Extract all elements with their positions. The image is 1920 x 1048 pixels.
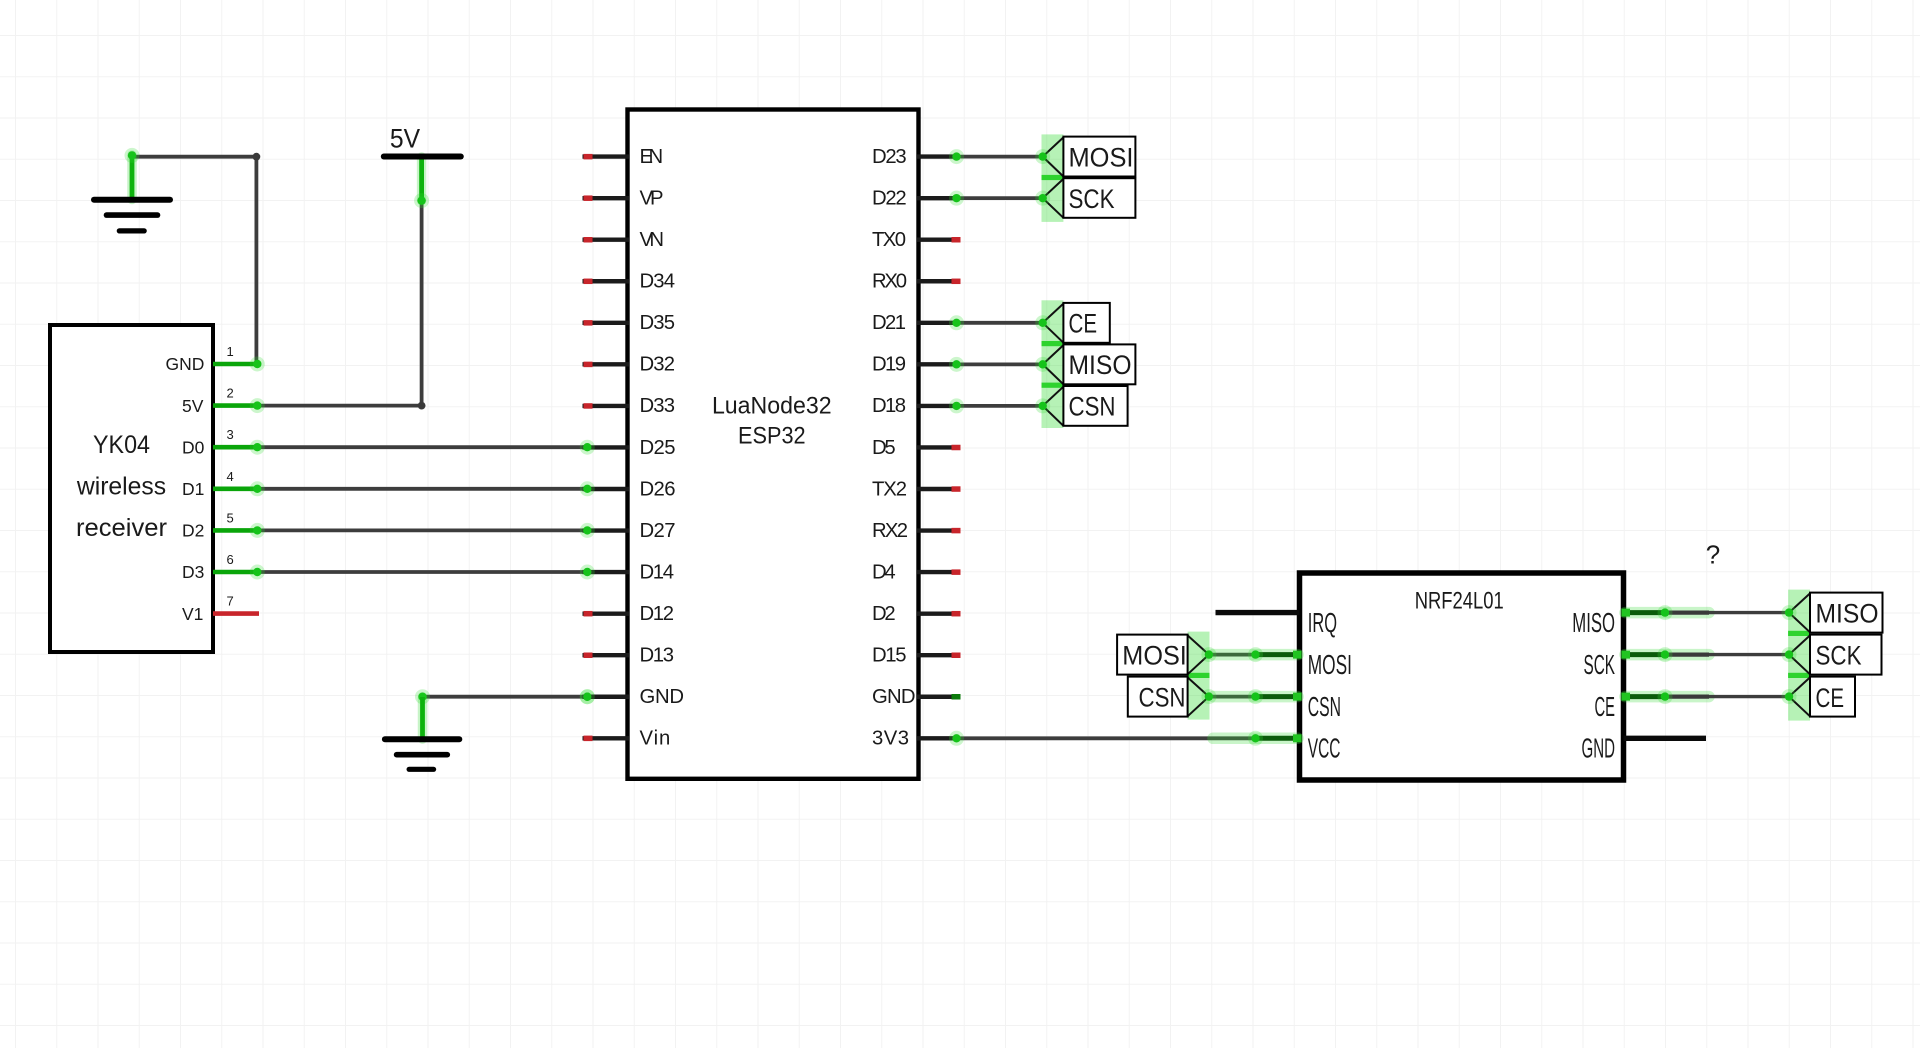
- svg-text:D33: D33: [640, 395, 676, 417]
- svg-text:MOSI: MOSI: [1308, 649, 1352, 680]
- NRF pin IRQ (black stub, unconnected): [1216, 610, 1300, 615]
- wire label CSN to NRF CSN: [1209, 695, 1256, 699]
- node D19 pin end: [949, 357, 964, 372]
- wire D22 to label SCK: [957, 196, 1043, 200]
- ESP32 left green connected dots: [580, 440, 595, 455]
- YK04 pin 4 D1: [213, 486, 261, 491]
- svg-text:D5: D5: [872, 437, 896, 459]
- svg-text:1: 1: [227, 344, 234, 359]
- svg-text:D13: D13: [640, 645, 675, 667]
- node GND wire at ground G2: [415, 689, 430, 704]
- svg-text:CE: CE: [1069, 309, 1098, 339]
- ESP32 right GND dark green tip: [952, 694, 961, 700]
- NRF pin VCC: [1213, 733, 1298, 745]
- svg-text:7: 7: [227, 594, 234, 609]
- svg-text:5V: 5V: [390, 123, 420, 153]
- svg-text:2: 2: [227, 386, 234, 401]
- svg-text:LuaNode32: LuaNode32: [712, 393, 832, 420]
- svg-text:VCC: VCC: [1308, 733, 1341, 764]
- svg-text:EN: EN: [640, 146, 664, 168]
- svg-text:D3: D3: [182, 562, 204, 582]
- svg-text:D4: D4: [872, 561, 896, 583]
- wire D18 to label CSN: [957, 404, 1043, 408]
- svg-text:D22: D22: [872, 187, 907, 209]
- flag SCK (right): [1789, 635, 1810, 674]
- svg-text:YK04: YK04: [93, 431, 150, 459]
- wire YK04 D3 to ESP32 D14: [258, 570, 588, 574]
- svg-text:RX2: RX2: [872, 520, 908, 542]
- node junction GND net: [253, 153, 261, 161]
- svg-text:VN: VN: [640, 229, 665, 251]
- svg-text:MISO: MISO: [1572, 607, 1615, 638]
- svg-text:Vin: Vin: [640, 728, 671, 750]
- svg-text:GND: GND: [1582, 733, 1616, 764]
- svg-text:D2: D2: [872, 603, 896, 625]
- NRF pin CSN: [1213, 691, 1298, 703]
- svg-text:5: 5: [227, 510, 234, 525]
- svg-text:MOSI: MOSI: [1122, 640, 1187, 670]
- svg-text:MOSI: MOSI: [1069, 142, 1134, 172]
- ESP32 left pins: [583, 157, 630, 739]
- svg-text:4: 4: [227, 469, 234, 484]
- svg-text:D34: D34: [640, 271, 676, 293]
- flag MISO (right): [1789, 593, 1810, 632]
- net label group MOSI/SCK (at ESP32 D23/D22): [1042, 134, 1064, 222]
- svg-text:RX0: RX0: [872, 271, 907, 293]
- ESP32 right pin labels: [872, 146, 916, 750]
- wire YK04 5V pin to junction: [258, 404, 422, 408]
- NRF pin SCK (right): [1625, 649, 1709, 661]
- svg-text:receiver: receiver: [76, 514, 167, 542]
- svg-text:D26: D26: [640, 478, 676, 500]
- svg-text:CE: CE: [1816, 683, 1845, 713]
- node 3V3 pin end: [949, 731, 964, 746]
- node NRF VCC pin end: [1248, 731, 1263, 746]
- svg-text:CSN: CSN: [1069, 392, 1116, 422]
- node D22 pin end: [949, 191, 964, 206]
- wire label MOSI to NRF MOSI: [1209, 653, 1256, 657]
- node GND pin end (ESP32 left): [580, 689, 595, 704]
- green wire stub at 5V symbol: [417, 157, 427, 201]
- YK04 pin 1 GND: [213, 362, 261, 367]
- node NRF CSN pin end: [1248, 689, 1263, 704]
- node D21 pin end: [949, 315, 964, 330]
- svg-text:D19: D19: [872, 354, 906, 376]
- svg-text:NRF24L01: NRF24L01: [1415, 588, 1504, 615]
- ESP32 right pins: [917, 157, 960, 739]
- flag CE (right): [1789, 677, 1810, 716]
- node D18 pin end: [949, 398, 964, 413]
- flag CSN: [1043, 387, 1064, 426]
- svg-text:D12: D12: [640, 603, 675, 625]
- wire junction to YK04 GND pin: [256, 157, 258, 364]
- svg-text:D18: D18: [872, 395, 906, 417]
- YK04 pin 6 D3: [213, 570, 261, 575]
- flag MISO: [1043, 345, 1064, 384]
- svg-text:D32: D32: [640, 354, 676, 376]
- NRF pin GND (black stub, unconnected): [1624, 736, 1707, 741]
- node GND wire at ESP32: [580, 689, 595, 704]
- flag SCK: [1043, 179, 1064, 218]
- wire D19 to label MISO: [957, 362, 1043, 366]
- svg-text:3: 3: [227, 427, 234, 442]
- svg-text:3V3: 3V3: [872, 728, 909, 750]
- NRF pin MOSI: [1213, 649, 1298, 661]
- svg-text:GND: GND: [640, 686, 685, 708]
- svg-text:5V: 5V: [182, 396, 204, 416]
- node D23 pin end: [949, 149, 964, 164]
- green wire stub at ground G2: [418, 697, 428, 739]
- svg-text:GND: GND: [872, 686, 916, 708]
- svg-text:CSN: CSN: [1308, 691, 1341, 722]
- svg-text:MISO: MISO: [1069, 350, 1132, 380]
- ground symbol G2: [385, 739, 459, 769]
- wire YK04 D2 to ESP32 D27: [258, 529, 588, 533]
- ESP32 left red tips (unconnected): [584, 154, 593, 741]
- wire 3V3 to NRF VCC: [957, 736, 1256, 740]
- svg-text:IRQ: IRQ: [1308, 607, 1337, 638]
- svg-text:D15: D15: [872, 645, 907, 667]
- svg-text:ESP32: ESP32: [738, 423, 806, 450]
- YK04 pin 3 D0: [213, 445, 261, 450]
- YK04 pin 2 5V: [213, 403, 261, 408]
- wire YK04 D0 to ESP32 D25: [258, 445, 588, 449]
- flag CE: [1043, 304, 1064, 343]
- svg-text:VP: VP: [640, 187, 664, 209]
- net label group MOSI/CSN (at NRF left): [1188, 632, 1210, 720]
- node junction 5V net: [418, 402, 426, 410]
- net label group MISO/SCK/CE (at NRF right): [1788, 590, 1810, 721]
- svg-text:TX2: TX2: [872, 478, 907, 500]
- wire D23 to label MOSI: [957, 155, 1043, 159]
- flag MOSI (NRF): [1188, 635, 1209, 674]
- svg-text:SCK: SCK: [1816, 640, 1862, 670]
- net label group CE/MISO/CSN (at ESP32 D21/D19/D18): [1042, 300, 1064, 428]
- svg-text:CE: CE: [1595, 691, 1616, 722]
- wire 5V symbol vertical to 5V net: [420, 201, 424, 406]
- svg-text:CSN: CSN: [1139, 682, 1186, 712]
- svg-text:D14: D14: [640, 561, 675, 583]
- NRF pin MISO (right): [1625, 607, 1709, 619]
- ground symbol G1: [94, 200, 170, 231]
- NRF pin CE (right): [1625, 691, 1709, 703]
- svg-text:SCK: SCK: [1584, 649, 1616, 680]
- ESP32 right red tips (unconnected): [952, 237, 961, 658]
- component YK04 wireless receiver: [50, 325, 213, 652]
- svg-text:D23: D23: [872, 146, 907, 168]
- svg-text:MISO: MISO: [1816, 598, 1879, 628]
- svg-text:D27: D27: [640, 520, 676, 542]
- svg-text:wireless: wireless: [76, 472, 166, 500]
- svg-text:SCK: SCK: [1069, 184, 1115, 214]
- svg-text:6: 6: [227, 552, 234, 567]
- svg-text:?: ?: [1706, 540, 1720, 570]
- svg-text:TX0: TX0: [872, 229, 906, 251]
- component ESP32 LuaNode32: [628, 110, 919, 779]
- wire D21 to label CE: [957, 321, 1043, 325]
- node NRF MOSI pin end: [1248, 647, 1263, 662]
- green wire stub at ground G1: [127, 155, 137, 200]
- YK04 pin 7 V1 (red, unconnected): [213, 611, 259, 616]
- wire GND1: ground to junction: [132, 155, 256, 159]
- svg-text:V1: V1: [182, 604, 203, 624]
- wire ESP32 GND to ground G2: [423, 695, 588, 699]
- svg-text:D0: D0: [182, 437, 205, 457]
- YK04 pin 5 D2: [213, 528, 261, 533]
- svg-text:D21: D21: [872, 312, 906, 334]
- component NRF24L01: [1300, 573, 1624, 780]
- flag MOSI: [1043, 137, 1064, 176]
- wire YK04 D1 to ESP32 D26: [258, 487, 588, 491]
- svg-text:D25: D25: [640, 437, 676, 459]
- svg-text:D35: D35: [640, 312, 676, 334]
- svg-text:D2: D2: [182, 521, 204, 541]
- ESP32 left pin labels: [640, 146, 685, 750]
- svg-text:D1: D1: [182, 479, 204, 499]
- flag CSN (NRF): [1188, 677, 1209, 716]
- svg-text:GND: GND: [166, 354, 205, 374]
- power symbol 5V: [384, 154, 461, 160]
